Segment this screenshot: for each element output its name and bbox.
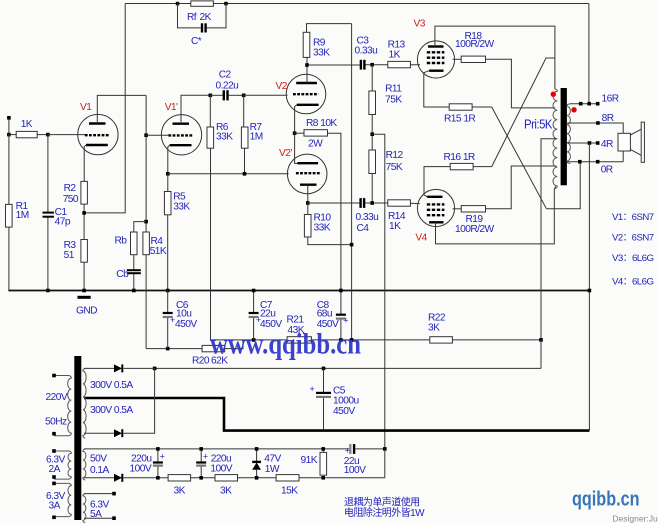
svg-text:0.33u: 0.33u	[356, 212, 379, 223]
diode D2	[84, 368, 155, 437]
resistor R12	[369, 150, 376, 203]
svg-text:www.qqibb.cn: www.qqibb.cn	[210, 328, 361, 361]
svg-text:3K: 3K	[220, 486, 232, 497]
svg-text:1W: 1W	[265, 464, 280, 475]
node 4R bus junction	[588, 289, 592, 293]
svg-text:+: +	[310, 384, 315, 394]
svg-text:100R/2W: 100R/2W	[455, 224, 495, 235]
resistor 3K first	[168, 475, 215, 481]
wire 6.3V5A bottom lead	[84, 517, 112, 519]
svg-text:+: +	[256, 315, 261, 325]
svg-text:0.33u: 0.33u	[355, 46, 378, 57]
node R22 right junction	[539, 338, 543, 342]
capacitor C4	[360, 198, 388, 208]
terminal input	[7, 116, 11, 120]
terminal 4R b	[596, 141, 600, 145]
capacitor C3	[309, 60, 420, 70]
svg-text:V2：6SN7: V2：6SN7	[612, 233, 654, 244]
svg-text:V3: V3	[414, 19, 426, 30]
wire top feedback rail	[125, 3, 589, 5]
svg-text:220V: 220V	[46, 392, 68, 403]
resistor R4	[143, 232, 150, 349]
terminal 16R b	[587, 102, 591, 106]
node C3 R11 junction	[370, 63, 374, 67]
svg-text:68u: 68u	[317, 309, 332, 320]
wire B+ riser x351	[351, 24, 353, 340]
transformer T1 center tap	[541, 139, 556, 340]
node Rf left junction	[176, 2, 180, 6]
wire 16R tap row	[570, 103, 598, 105]
wire V2' cathode down	[307, 185, 309, 203]
node R4 Rb junction	[144, 220, 148, 224]
terminal 0R b	[596, 160, 600, 164]
wire V1' grid	[146, 134, 170, 136]
node rectifier output junction	[153, 367, 157, 371]
svg-text:50V: 50V	[90, 454, 107, 465]
capacitor C1	[43, 135, 54, 291]
wire C4 row	[308, 202, 360, 204]
svg-text:V4：6L6G: V4：6L6G	[612, 277, 654, 288]
svg-text:2A: 2A	[49, 464, 61, 475]
svg-text:V3：6L6G: V3：6L6G	[612, 253, 654, 264]
svg-text:450V: 450V	[333, 406, 355, 417]
wire B+ drop x541	[540, 340, 542, 369]
wire V3 cathode	[424, 71, 449, 107]
capacitor 220u first	[153, 449, 163, 478]
svg-text:4R: 4R	[601, 139, 613, 150]
ground bus	[8, 290, 589, 292]
transformer T2 secondary 50V winding	[83, 449, 86, 480]
svg-text:75K: 75K	[385, 95, 402, 106]
resistor R11	[369, 65, 376, 150]
node R8 left junction	[293, 131, 297, 135]
svg-text:+: +	[170, 315, 175, 325]
svg-text:R21: R21	[287, 315, 305, 326]
resistor R1	[6, 135, 13, 291]
node V2 plate junction	[305, 63, 309, 67]
svg-text:C4: C4	[357, 223, 370, 234]
node 220u second bottom	[199, 476, 203, 480]
resistor R22	[430, 337, 541, 343]
wire V3 plate	[435, 26, 555, 89]
transformer T2 primary 6.3V 3A winding	[54, 483, 71, 516]
node C2 right junction	[242, 94, 246, 98]
node red phase dot primary	[551, 92, 556, 97]
node R2 R3 feedback junction	[82, 211, 86, 215]
svg-text:0.1A: 0.1A	[90, 465, 110, 476]
svg-text:R12: R12	[386, 150, 404, 161]
wire C* branch	[178, 4, 201, 28]
node Rf right junction	[224, 2, 228, 6]
wire PSU zero volt thick	[84, 398, 589, 431]
svg-text:100V: 100V	[344, 465, 366, 476]
terminal 4R a	[588, 141, 592, 145]
svg-text:75K: 75K	[386, 162, 403, 173]
svg-text:R8 10K: R8 10K	[306, 118, 337, 129]
svg-text:300V 0.5A: 300V 0.5A	[90, 405, 133, 416]
svg-text:33K: 33K	[216, 132, 233, 143]
ground symbol GND	[78, 296, 91, 299]
tube V1	[78, 114, 118, 154]
wire C2 to V2 grid	[244, 94, 288, 96]
transformer T1 core	[561, 88, 567, 185]
svg-text:Cb: Cb	[116, 269, 129, 280]
transformer T2 primary 220V winding	[54, 376, 71, 436]
svg-text:+: +	[343, 315, 348, 325]
tube V3	[417, 41, 454, 78]
svg-text:V2: V2	[276, 81, 288, 92]
svg-text:V4: V4	[415, 233, 427, 244]
svg-text:450V: 450V	[175, 319, 197, 330]
wire V4 plate	[436, 187, 556, 244]
svg-text:Pri:5K: Pri:5K	[524, 117, 553, 132]
svg-text:Rf: Rf	[187, 12, 197, 23]
svg-text:33K: 33K	[314, 223, 331, 234]
svg-text:33K: 33K	[173, 202, 190, 213]
node C7 junction	[252, 338, 256, 342]
capacitor C8	[336, 291, 346, 340]
svg-text:V2': V2'	[279, 148, 292, 159]
svg-text:100V: 100V	[210, 464, 232, 475]
svg-text:Designer:Jun: Designer:Jun	[612, 514, 658, 523]
svg-text:V1：6SN7: V1：6SN7	[612, 212, 654, 223]
wire R14 to V4 grid	[410, 202, 419, 204]
transformer T2 core	[74, 356, 81, 520]
wire feedback vertical x125	[84, 4, 125, 213]
resistor R16	[450, 163, 492, 169]
capacitor C5	[316, 368, 331, 430]
resistor R14	[388, 200, 411, 206]
wire bias tap jog	[372, 134, 385, 449]
capacitor C2	[210, 90, 243, 100]
resistor R7	[241, 95, 248, 174]
terminal 8R	[596, 121, 600, 125]
wire 0R return	[546, 164, 580, 209]
wire bias bottom row start	[84, 477, 114, 479]
node C1 ground	[46, 289, 50, 293]
svg-text:91K: 91K	[301, 455, 318, 466]
node Cb ground	[132, 289, 136, 293]
svg-text:R2: R2	[64, 183, 77, 194]
node zener top	[255, 447, 259, 451]
svg-text:8R: 8R	[602, 113, 614, 124]
svg-text:47p: 47p	[55, 217, 71, 228]
terminal 6.3V3A bottom	[52, 516, 56, 520]
terminal 16R a	[579, 102, 583, 106]
wire bias corner	[384, 449, 386, 478]
resistor R9	[303, 24, 351, 58]
wire R20 supply line	[146, 348, 202, 350]
terminal 6.3V2A top	[52, 449, 56, 453]
svg-text:1M: 1M	[16, 210, 29, 221]
svg-text:退耦为单声道使用: 退耦为单声道使用	[344, 496, 420, 509]
terminal 16R c	[596, 102, 600, 106]
svg-text:C*: C*	[191, 36, 202, 47]
node input junction	[7, 133, 11, 137]
resistor R10	[304, 203, 351, 245]
svg-text:GND: GND	[76, 306, 97, 317]
diode zener 47V	[252, 449, 261, 478]
resistor 15K	[276, 475, 385, 481]
svg-text:R20: R20	[192, 356, 210, 367]
wire 4R ground drop	[588, 143, 590, 431]
wire V1' cathode	[168, 145, 170, 174]
wire bias top row	[84, 448, 349, 450]
svg-text:750: 750	[63, 194, 79, 205]
svg-text:电阻除注明外皆1W: 电阻除注明外皆1W	[344, 506, 425, 519]
svg-text:100R/2W: 100R/2W	[455, 39, 495, 50]
terminal 220V top	[52, 374, 56, 378]
wire V1' plate	[181, 95, 210, 123]
wire grid to V1	[48, 134, 86, 136]
svg-text:51K: 51K	[150, 246, 167, 257]
resistor R8	[295, 130, 341, 291]
capacitor C6	[163, 291, 173, 349]
svg-text:1M: 1M	[250, 132, 263, 143]
node 91K top	[321, 447, 325, 451]
svg-text:22u: 22u	[260, 309, 275, 320]
svg-text:5A: 5A	[90, 509, 102, 520]
svg-text:3K: 3K	[428, 323, 440, 334]
node C5 junction	[322, 367, 326, 371]
wire V1 plate supply line x146	[145, 95, 147, 232]
wire Rb jog	[134, 222, 146, 232]
resistor R21	[287, 337, 430, 343]
wire B+ rail y368	[155, 367, 541, 369]
wire V4 cathode	[424, 167, 450, 197]
plus sign C6	[160, 315, 350, 462]
terminal 6.3V5A top	[112, 492, 116, 496]
tube V1'	[161, 115, 201, 155]
capacitor 22u series	[350, 444, 385, 454]
wire 4R tap row	[567, 142, 600, 144]
node R10 riser junction	[350, 243, 354, 247]
svg-text:V1: V1	[80, 102, 92, 113]
svg-text:1K: 1K	[21, 119, 33, 130]
svg-text:R15 1R: R15 1R	[444, 114, 475, 125]
wire input drop	[8, 120, 10, 135]
capacitor C7	[249, 291, 259, 340]
resistor R2	[81, 181, 88, 239]
node C7 bus junction	[252, 289, 256, 293]
resistor R6	[207, 95, 214, 340]
svg-text:10u: 10u	[176, 309, 191, 320]
wire V2 cathode	[295, 105, 297, 133]
transformer T1 primary winding	[553, 89, 557, 189]
svg-text:2W: 2W	[308, 139, 323, 150]
svg-text:0.22u: 0.22u	[216, 81, 239, 92]
wire R16 diagonal to primary top	[492, 58, 555, 167]
tube V4	[417, 189, 454, 226]
capacitor C*	[202, 23, 206, 32]
wire V2' plate lead	[295, 133, 298, 163]
transformer T2 primary 6.3V 2A winding	[54, 451, 71, 479]
wire C* branch right	[207, 4, 226, 28]
wire 6.3V5A top lead	[84, 493, 112, 495]
svg-text:+: +	[160, 452, 165, 462]
svg-text:16R: 16R	[602, 94, 619, 105]
node riser junction	[350, 338, 354, 342]
node bias tap junction	[383, 447, 387, 451]
svg-text:47V: 47V	[264, 454, 281, 465]
svg-text:3A: 3A	[49, 501, 61, 512]
transformer T2 secondary HV winding	[83, 368, 86, 438]
node C6 junction	[166, 347, 170, 351]
node R7 cathode row junction	[243, 172, 247, 176]
svg-text:3K: 3K	[174, 486, 186, 497]
node C2 left junction	[209, 94, 213, 98]
wire cathode row to V2' grid	[168, 173, 289, 175]
svg-text:qqibb.cn: qqibb.cn	[572, 489, 640, 511]
svg-text:+: +	[345, 446, 350, 456]
terminal 6.3V3A top	[52, 482, 56, 486]
svg-text:50Hz: 50Hz	[45, 417, 67, 428]
svg-text:V1': V1'	[165, 102, 178, 113]
svg-text:1K: 1K	[389, 221, 401, 232]
terminal 6.3V2A bottom	[52, 475, 56, 479]
svg-text:0R: 0R	[601, 165, 613, 176]
svg-text:2K: 2K	[200, 12, 212, 23]
resistor 3K second	[215, 475, 276, 481]
wire 0R tap row	[567, 161, 623, 163]
svg-text:C2: C2	[219, 70, 232, 81]
wire V2 plate	[306, 57, 308, 83]
svg-text:300V 0.5A: 300V 0.5A	[90, 380, 133, 391]
node 220u first bottom	[156, 476, 160, 480]
svg-text:15K: 15K	[281, 486, 298, 497]
tube V2'	[287, 154, 327, 194]
transformer T1 secondary winding	[567, 104, 571, 164]
node R3 ground	[82, 289, 86, 293]
resistor R20	[202, 340, 243, 352]
resistor 1K grid stopper	[9, 131, 48, 137]
resistor Rb	[131, 232, 138, 255]
node grid junction	[46, 133, 50, 137]
capacitor 220u second	[196, 449, 206, 478]
node 220u second top	[199, 447, 203, 451]
wire feedback drop right rail to 16R	[588, 4, 590, 104]
diode D3	[114, 474, 168, 482]
node C8 bus junction	[339, 289, 343, 293]
node V1' cathode junction	[166, 172, 170, 176]
terminal 220V bottom	[52, 432, 56, 436]
svg-text:33K: 33K	[313, 48, 330, 59]
wire V1 plate	[97, 95, 146, 123]
resistor R3	[81, 240, 88, 291]
resistor R5	[164, 174, 171, 291]
svg-text:R16 1R: R16 1R	[444, 152, 475, 163]
terminal 0R a	[578, 160, 582, 164]
resistor R15	[449, 104, 492, 110]
node 91K bottom	[321, 476, 325, 480]
resistor R18	[453, 56, 556, 108]
svg-text:R11: R11	[385, 84, 402, 95]
node C4 R12 junction	[370, 201, 374, 205]
node C4 row left junction	[306, 201, 310, 205]
svg-text:+: +	[203, 452, 208, 462]
node R11 R12 junction	[370, 132, 374, 136]
speaker LS1	[618, 122, 644, 162]
svg-text:1000u: 1000u	[333, 396, 359, 407]
node R5 ground	[166, 289, 170, 293]
diode D1	[84, 364, 155, 372]
node zener bottom	[255, 476, 259, 480]
node V1' grid tap	[144, 133, 148, 137]
svg-text:100V: 100V	[130, 464, 152, 475]
terminal 6.3V5A bottom	[112, 516, 116, 520]
resistor 91K	[320, 449, 327, 475]
svg-text:51: 51	[64, 250, 75, 261]
wire R15 diagonal to 0R	[492, 107, 547, 209]
transformer T2 secondary 6.3V 5A winding	[83, 494, 86, 523]
node red phase dot secondary	[571, 107, 576, 112]
capacitor Cb	[127, 255, 141, 291]
svg-text:1K: 1K	[389, 50, 401, 61]
svg-text:Rb: Rb	[115, 236, 128, 247]
resistor Rf	[180, 1, 227, 6]
wire supply chain y340	[211, 339, 288, 341]
node C8 junction	[339, 338, 343, 342]
tube V2	[286, 74, 326, 114]
resistor R13	[388, 61, 411, 67]
wire V1 cathode	[84, 145, 86, 181]
resistor R19	[453, 166, 557, 212]
wire 8R tap row	[567, 123, 623, 133]
node 220u first top	[156, 447, 160, 451]
